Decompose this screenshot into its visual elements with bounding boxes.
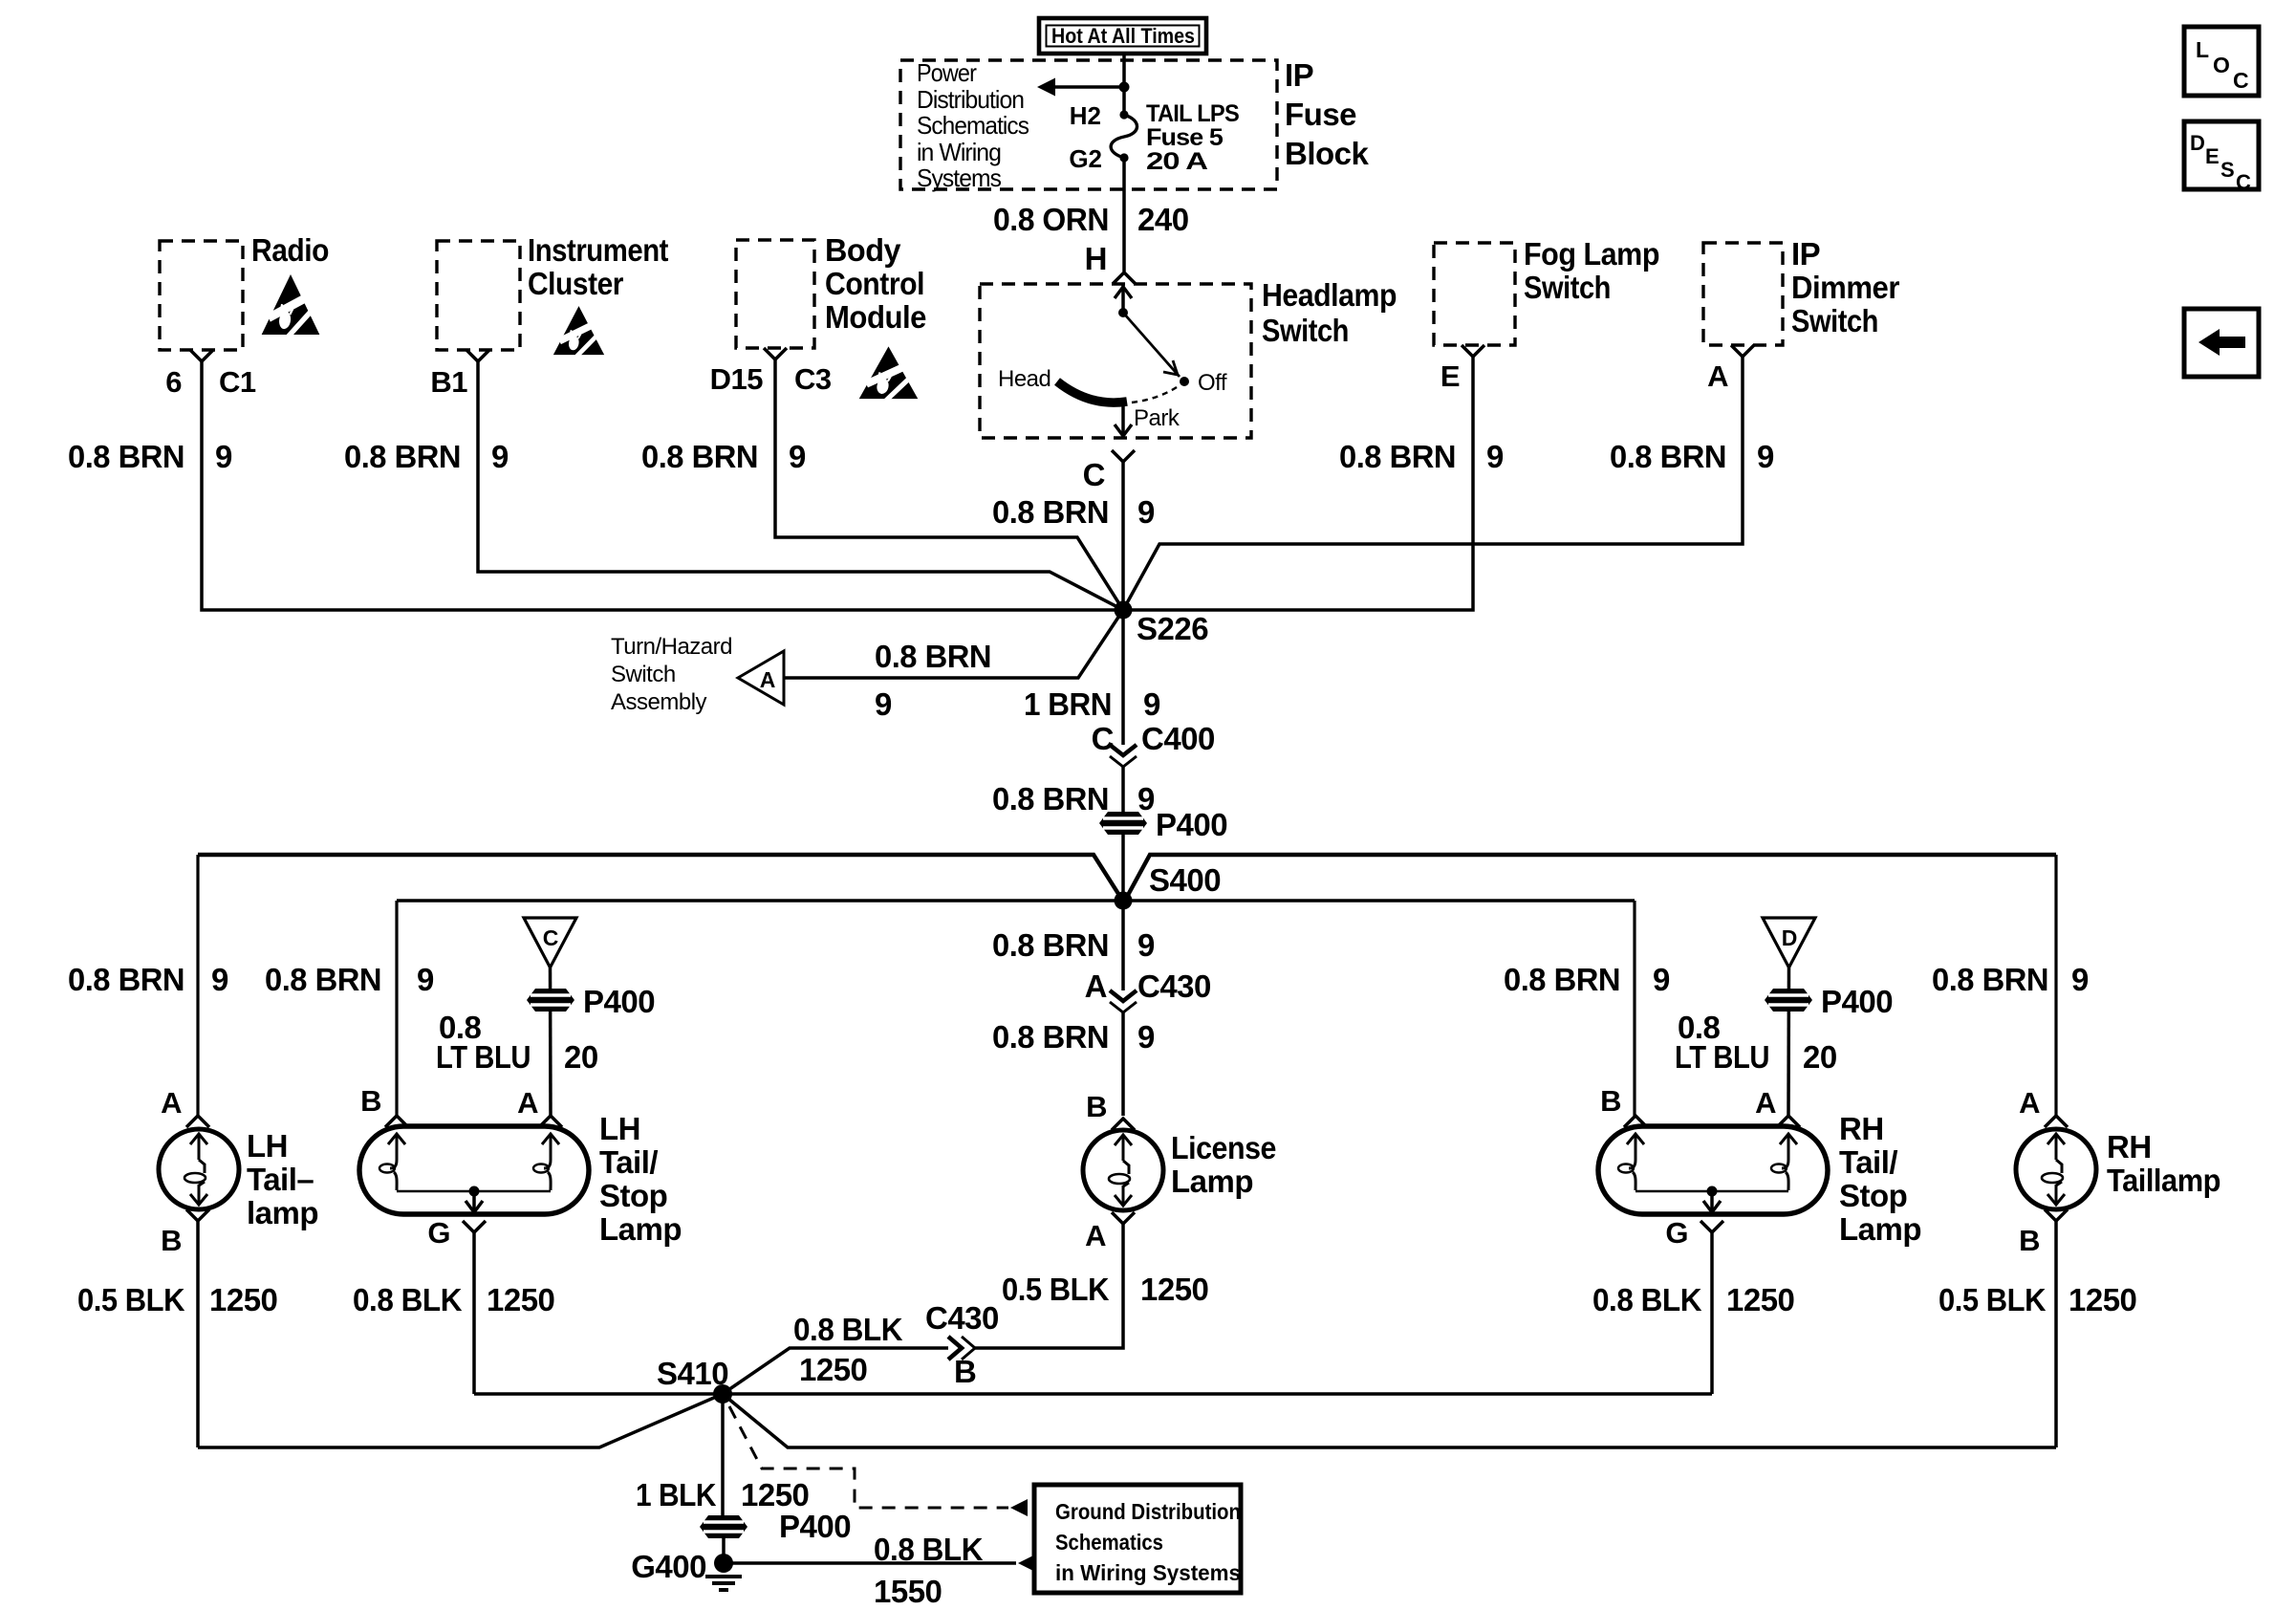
- svg-text:Park: Park: [1134, 405, 1180, 431]
- connector C430: [1085, 968, 1211, 1012]
- svg-text:IP: IP: [1791, 236, 1820, 272]
- wire from hot box into fuse block: [1122, 54, 1126, 115]
- svg-text:Switch: Switch: [1524, 270, 1611, 305]
- power distribution note: [917, 58, 1029, 192]
- svg-text:Block: Block: [1285, 136, 1370, 171]
- wire label 0.8 BLK 1250: [1592, 1282, 1794, 1317]
- svg-text:0.5 BLK: 0.5 BLK: [77, 1282, 185, 1317]
- svg-text:Fog Lamp: Fog Lamp: [1524, 236, 1659, 272]
- svg-text:0.8 BRN: 0.8 BRN: [1932, 962, 2048, 997]
- svg-text:LT BLU: LT BLU: [436, 1039, 531, 1075]
- IP fuse block dashed box: [900, 60, 1277, 189]
- svg-text:Head: Head: [998, 366, 1051, 392]
- wire label 0.8 BRN 9: [992, 494, 1155, 530]
- wire C430 to license lamp: [1121, 1012, 1125, 1116]
- pin labels D15 C3: [710, 362, 832, 396]
- svg-text:Tail/: Tail/: [1839, 1144, 1897, 1180]
- instrument cluster wire to S226: [478, 361, 1123, 610]
- wire label: [344, 439, 509, 474]
- svg-text:C400: C400: [1141, 721, 1215, 756]
- svg-text:D: D: [2190, 131, 2205, 155]
- svg-text:0.8 BLK: 0.8 BLK: [793, 1312, 903, 1347]
- svg-text:B: B: [1086, 1090, 1107, 1123]
- svg-text:0.8 BRN: 0.8 BRN: [1504, 962, 1620, 997]
- fuse pin labels H2 G2: [1069, 101, 1102, 173]
- switch common arrow: [1115, 285, 1132, 317]
- upper ground bus wire: [474, 1392, 1712, 1396]
- inner bus wire: [397, 899, 1635, 903]
- headlamp switch dashed box: [980, 284, 1251, 438]
- svg-text:S410: S410: [657, 1356, 728, 1391]
- wire label 0.8 BLK 1250: [793, 1312, 903, 1387]
- svg-text:D: D: [1782, 925, 1798, 950]
- wire C to S226: [1121, 462, 1125, 610]
- ground G400: [631, 1549, 742, 1590]
- grommet P400 bottom: [700, 1515, 747, 1538]
- svg-text:9: 9: [1143, 686, 1160, 722]
- svg-text:G2: G2: [1069, 144, 1102, 173]
- radio wire label: [68, 439, 232, 474]
- svg-text:1250: 1250: [741, 1477, 809, 1512]
- svg-text:0.8 ORN: 0.8 ORN: [993, 202, 1109, 237]
- svg-text:Power: Power: [917, 58, 977, 87]
- switch blade to off: [1123, 313, 1189, 386]
- wiper thick arc: [1057, 381, 1127, 402]
- RH tail/stop lamp: [1598, 1084, 1921, 1250]
- wire label: [1610, 439, 1774, 474]
- svg-text:Lamp: Lamp: [1171, 1164, 1253, 1199]
- svg-text:1250: 1250: [2069, 1282, 2136, 1317]
- svg-text:0.8 BRN: 0.8 BRN: [992, 927, 1109, 963]
- wire label 0.8 ORN 240: [993, 202, 1189, 237]
- svg-text:B: B: [360, 1084, 381, 1118]
- svg-text:G400: G400: [631, 1549, 706, 1584]
- hot at all times box: [1039, 18, 1206, 54]
- wire label 1 BRN 9: [1024, 686, 1160, 722]
- LH tail/stop lamp: [359, 1084, 682, 1250]
- svg-text:9: 9: [2071, 962, 2089, 997]
- license lamp ground wire: [975, 1224, 1123, 1348]
- svg-text:G: G: [1665, 1216, 1688, 1250]
- svg-text:A: A: [161, 1086, 182, 1120]
- svg-text:9: 9: [1137, 927, 1155, 963]
- wire label 1 BLK 1250: [636, 1477, 809, 1512]
- svg-text:Fuse: Fuse: [1285, 97, 1356, 132]
- svg-text:Systems: Systems: [917, 163, 1002, 192]
- LH taillamp ground wire: [196, 1221, 200, 1447]
- svg-text:9: 9: [417, 962, 434, 997]
- turn/hazard wire label: [875, 639, 991, 722]
- svg-text:Turn/Hazard: Turn/Hazard: [611, 634, 732, 660]
- turn/hazard branch wire: [784, 610, 1123, 678]
- svg-text:C: C: [2233, 68, 2249, 93]
- arrow to power distribution: [1037, 78, 1130, 97]
- svg-text:9: 9: [491, 439, 509, 474]
- svg-text:B: B: [2019, 1224, 2040, 1257]
- svg-text:B: B: [1600, 1084, 1621, 1118]
- instrument cluster dashed box: [437, 241, 520, 350]
- fog connector chevron: [1462, 345, 1484, 357]
- svg-text:Fuse 5: Fuse 5: [1146, 124, 1224, 151]
- connector C400: [1092, 610, 1215, 767]
- outer bus wire: [198, 855, 2056, 897]
- svg-text:Hot At All Times: Hot At All Times: [1051, 24, 1195, 48]
- bcm connector chevron: [764, 348, 787, 359]
- svg-text:in Wiring Systems: in Wiring Systems: [1055, 1560, 1241, 1585]
- wire label 0.5 BLK 1250: [1939, 1282, 2136, 1317]
- svg-text:Control: Control: [825, 266, 924, 301]
- svg-text:Switch: Switch: [1262, 313, 1349, 348]
- svg-text:1 BRN: 1 BRN: [1024, 686, 1112, 722]
- svg-text:A: A: [760, 667, 776, 692]
- svg-text:C1: C1: [219, 365, 256, 399]
- svg-text:9: 9: [789, 439, 806, 474]
- svg-text:RH: RH: [1839, 1111, 1884, 1146]
- svg-text:L: L: [2196, 37, 2209, 62]
- svg-text:0.8 BRN: 0.8 BRN: [1339, 439, 1456, 474]
- svg-text:TAIL LPS: TAIL LPS: [1146, 100, 1239, 127]
- svg-text:C: C: [1083, 457, 1105, 492]
- instrument cluster label: [528, 232, 668, 301]
- park output arrow: [1115, 402, 1132, 436]
- svg-text:S226: S226: [1137, 611, 1208, 646]
- svg-text:Taillamp: Taillamp: [2107, 1163, 2220, 1198]
- svg-text:Assembly: Assembly: [611, 689, 707, 715]
- RH stadium ground wire: [1710, 1232, 1714, 1394]
- svg-text:A: A: [1085, 1219, 1106, 1252]
- wire S410 to license lamp C430: [723, 1348, 948, 1394]
- wire label 0.5 BLK 1250: [77, 1282, 277, 1317]
- svg-text:Schematics: Schematics: [1055, 1530, 1163, 1555]
- body control module esd symbol: [859, 346, 919, 401]
- radio pin labels 6 C1: [165, 365, 256, 399]
- splice S226: [1115, 601, 1133, 620]
- svg-text:Body: Body: [825, 232, 901, 268]
- loc box: [2184, 27, 2259, 96]
- svg-text:0.8 BRN: 0.8 BRN: [641, 439, 758, 474]
- wire label outer left 0.8 BRN 9: [68, 962, 228, 997]
- svg-text:0.8 BRN: 0.8 BRN: [265, 962, 381, 997]
- IP fuse block label: [1285, 57, 1370, 171]
- radio wire to S226: [202, 361, 1123, 610]
- svg-text:A: A: [517, 1086, 538, 1120]
- wire label 0.8 BLK 1250: [353, 1282, 554, 1317]
- svg-text:B: B: [161, 1224, 182, 1257]
- svg-text:LH: LH: [247, 1128, 288, 1164]
- D triangle off-page connector: [1763, 918, 1815, 968]
- svg-text:Module: Module: [825, 299, 926, 335]
- svg-text:0.8 BLK: 0.8 BLK: [1592, 1282, 1702, 1317]
- wire C400 to P400: [1121, 767, 1125, 901]
- svg-text:B1: B1: [430, 365, 467, 399]
- svg-text:9: 9: [1137, 494, 1155, 530]
- svg-text:P400: P400: [583, 984, 655, 1019]
- svg-text:0.5 BLK: 0.5 BLK: [1939, 1282, 2047, 1317]
- wire grommet to G400: [722, 1538, 726, 1563]
- grommet P400 right: [1765, 989, 1812, 1012]
- svg-text:E: E: [2205, 144, 2220, 168]
- grommet P400 main: [1099, 812, 1147, 835]
- fuse TAIL LPS: [1111, 110, 1137, 162]
- svg-text:A: A: [2019, 1086, 2040, 1120]
- svg-text:0.8 BLK: 0.8 BLK: [874, 1532, 984, 1567]
- svg-text:LH: LH: [599, 1111, 640, 1146]
- svg-text:9: 9: [1137, 1019, 1155, 1055]
- wire label: [1339, 439, 1504, 474]
- ip dimmer switch dashed box: [1703, 243, 1783, 345]
- connector C chevron: [1112, 450, 1135, 462]
- instrument cluster esd symbol: [553, 306, 604, 357]
- svg-text:LT BLU: LT BLU: [1675, 1039, 1769, 1075]
- svg-text:0.8 BRN: 0.8 BRN: [344, 439, 461, 474]
- back arrow box: [2184, 309, 2259, 377]
- svg-text:C430: C430: [1137, 968, 1211, 1004]
- svg-text:H: H: [1085, 241, 1107, 276]
- svg-text:20 A: 20 A: [1146, 148, 1208, 175]
- svg-text:20: 20: [564, 1039, 598, 1075]
- svg-text:Lamp: Lamp: [1839, 1211, 1921, 1247]
- svg-text:9: 9: [875, 686, 892, 722]
- svg-text:C3: C3: [794, 362, 832, 396]
- connector A triangle: [738, 651, 784, 705]
- svg-text:1250: 1250: [209, 1282, 277, 1317]
- wire fuse to connector H: [1122, 158, 1126, 272]
- body control module dashed box: [736, 240, 814, 348]
- svg-text:in Wiring: in Wiring: [917, 138, 1001, 166]
- grommet P400 left: [527, 989, 574, 1012]
- svg-text:S400: S400: [1149, 862, 1221, 898]
- svg-text:B: B: [954, 1354, 976, 1389]
- svg-text:A: A: [1085, 968, 1107, 1004]
- svg-text:Switch: Switch: [1791, 303, 1878, 338]
- svg-text:Tail–: Tail–: [247, 1162, 314, 1197]
- svg-text:Dimmer: Dimmer: [1791, 270, 1900, 305]
- svg-text:9: 9: [1653, 962, 1670, 997]
- dashed wire S410 to ground distribution: [729, 1406, 1008, 1508]
- svg-text:Stop: Stop: [1839, 1178, 1907, 1213]
- dimmer wire to S226: [1123, 357, 1743, 610]
- svg-text:H2: H2: [1070, 101, 1101, 130]
- wire label 0.8 LT BLU 20: [1675, 1010, 1837, 1075]
- wire label 0.8 LT BLU 20: [436, 1010, 598, 1075]
- svg-text:C: C: [2236, 170, 2251, 194]
- svg-text:Lamp: Lamp: [599, 1211, 682, 1247]
- svg-text:P400: P400: [1821, 984, 1893, 1019]
- splice S400: [1115, 892, 1133, 910]
- wire label 0.8 BLK 1550: [874, 1532, 984, 1609]
- svg-text:1250: 1250: [1726, 1282, 1794, 1317]
- svg-text:RH: RH: [2107, 1129, 2152, 1164]
- wire C triangle to P400: [549, 968, 552, 1116]
- connector C430 inline: [925, 1300, 999, 1389]
- instrument cluster connector chevron: [466, 350, 489, 361]
- turn/hazard label: [611, 634, 732, 715]
- wire S410 to ground: [721, 1394, 725, 1515]
- svg-text:1250: 1250: [1140, 1272, 1208, 1307]
- license lamp: [1083, 1090, 1276, 1252]
- fog lamp switch dashed box: [1434, 243, 1515, 345]
- headlamp switch label: [1262, 277, 1397, 348]
- wire label outer right 0.8 BRN 9: [1932, 962, 2089, 997]
- RH taillamp: [2016, 1086, 2220, 1257]
- svg-text:9: 9: [1757, 439, 1774, 474]
- svg-text:D15: D15: [710, 362, 764, 396]
- svg-text:0.8 BRN: 0.8 BRN: [992, 494, 1109, 530]
- svg-text:Stop: Stop: [599, 1178, 667, 1213]
- svg-text:0.8 BRN: 0.8 BRN: [992, 1019, 1109, 1055]
- svg-text:E: E: [1440, 359, 1460, 393]
- svg-text:1250: 1250: [487, 1282, 554, 1317]
- svg-text:IP: IP: [1285, 57, 1313, 93]
- svg-text:9: 9: [211, 962, 228, 997]
- svg-text:0.5 BLK: 0.5 BLK: [1002, 1272, 1110, 1307]
- svg-text:S: S: [2220, 158, 2235, 182]
- svg-text:0.8 BLK: 0.8 BLK: [353, 1282, 463, 1317]
- svg-text:9: 9: [1486, 439, 1504, 474]
- svg-text:P400: P400: [779, 1509, 851, 1544]
- svg-text:6: 6: [165, 365, 182, 399]
- svg-text:O: O: [2213, 53, 2230, 77]
- wire label: [641, 439, 806, 474]
- desc box: [2184, 121, 2259, 194]
- ip dimmer switch label: [1791, 236, 1900, 338]
- svg-text:1250: 1250: [799, 1352, 867, 1387]
- svg-text:G: G: [427, 1216, 450, 1250]
- svg-text:C: C: [1092, 721, 1114, 756]
- svg-text:C430: C430: [925, 1300, 999, 1336]
- svg-text:Distribution: Distribution: [917, 85, 1024, 114]
- svg-text:Ground Distribution: Ground Distribution: [1055, 1499, 1241, 1524]
- RH taillamp ground wire: [2054, 1221, 2058, 1447]
- radio dashed box: [160, 241, 243, 350]
- wire label 0.5 BLK 1250: [1002, 1272, 1208, 1307]
- svg-text:0.8 BRN: 0.8 BRN: [875, 639, 991, 674]
- lower ground bus wire: [198, 1394, 2056, 1447]
- radio connector chevron: [190, 350, 213, 361]
- dashed arc to off: [1132, 385, 1180, 402]
- svg-text:0.8 BRN: 0.8 BRN: [1610, 439, 1726, 474]
- svg-text:9: 9: [215, 439, 232, 474]
- svg-text:Headlamp: Headlamp: [1262, 277, 1397, 313]
- svg-text:C: C: [543, 925, 559, 950]
- svg-text:Tail/: Tail/: [599, 1144, 658, 1180]
- fog lamp switch label: [1524, 236, 1659, 305]
- connector H chevron: [1113, 272, 1136, 284]
- fuse value label: [1146, 100, 1239, 175]
- ground distribution box: [1034, 1485, 1241, 1593]
- LH taillamp: [159, 1086, 318, 1257]
- wire label 0.8 BRN 9: [992, 1019, 1155, 1055]
- wire S400 down to C430: [1121, 901, 1125, 990]
- wire label 0.8 BRN 9: [992, 781, 1155, 816]
- splice S410: [713, 1384, 732, 1403]
- body control module label: [825, 232, 926, 335]
- svg-text:0.8 BRN: 0.8 BRN: [68, 439, 184, 474]
- svg-text:240: 240: [1137, 202, 1189, 237]
- wire G400 to ground distribution: [724, 1561, 1016, 1565]
- bcm wire to S226: [775, 359, 1123, 610]
- svg-text:A: A: [1707, 359, 1728, 393]
- svg-text:0.8 BRN: 0.8 BRN: [992, 781, 1109, 816]
- svg-text:Radio: Radio: [251, 232, 329, 268]
- fog wire to S226: [1123, 357, 1473, 610]
- svg-text:Switch: Switch: [611, 662, 676, 687]
- svg-text:20: 20: [1803, 1039, 1837, 1075]
- svg-text:9: 9: [1137, 781, 1155, 816]
- wire D triangle to P400: [1787, 968, 1790, 1116]
- svg-text:Off: Off: [1198, 370, 1227, 396]
- svg-text:Instrument: Instrument: [528, 232, 668, 268]
- svg-text:1 BLK: 1 BLK: [636, 1477, 717, 1512]
- svg-text:License: License: [1171, 1130, 1276, 1165]
- svg-text:lamp: lamp: [247, 1195, 318, 1230]
- svg-text:A: A: [1755, 1086, 1776, 1120]
- svg-text:1550: 1550: [874, 1574, 942, 1609]
- svg-text:Cluster: Cluster: [528, 266, 624, 301]
- svg-text:Schematics: Schematics: [917, 111, 1029, 140]
- radio esd symbol: [262, 274, 320, 337]
- svg-text:0.8 BRN: 0.8 BRN: [68, 962, 184, 997]
- dimmer connector chevron: [1731, 345, 1754, 357]
- LH stadium ground wire: [472, 1232, 476, 1394]
- wire label inner right 0.8 BRN 9: [1504, 962, 1670, 997]
- wire label inner left 0.8 BRN 9: [265, 962, 434, 997]
- C triangle off-page connector: [524, 918, 576, 968]
- svg-text:P400: P400: [1156, 807, 1227, 842]
- wire label 0.8 BRN 9: [992, 927, 1155, 963]
